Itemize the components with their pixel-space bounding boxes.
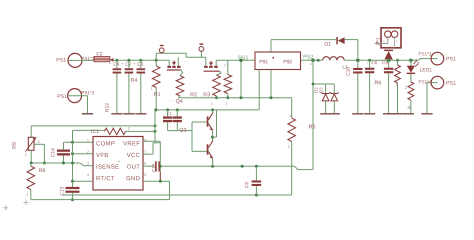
wire bus B xyxy=(31,199,170,201)
resistor R2 (gate) xyxy=(180,70,183,76)
wire driver tap xyxy=(211,136,214,139)
wire sense rail xyxy=(178,97,291,99)
wire transformer bottom pin xyxy=(258,70,260,110)
resistor R1 xyxy=(155,59,158,62)
connector PS1*1 xyxy=(68,53,82,67)
IC1 box xyxy=(93,137,143,191)
capacitor C9 xyxy=(382,61,388,64)
diode D3 (zener) xyxy=(319,88,322,93)
ground R6 xyxy=(391,113,402,114)
resistor feedback (COMP-VFB) xyxy=(91,129,98,133)
resistor R8 xyxy=(27,166,35,190)
wire testpoint line xyxy=(156,52,186,54)
connector PS1*4 xyxy=(419,80,432,83)
ground R7 xyxy=(403,113,414,114)
wire bus A xyxy=(62,194,292,196)
wire snubber top xyxy=(271,39,336,41)
capacitor C6 xyxy=(367,62,369,64)
capacitor C3 xyxy=(137,62,143,65)
label Q3 xyxy=(180,128,187,133)
wire drain bus xyxy=(216,59,255,61)
wire base feed xyxy=(168,130,192,132)
resistor R7 xyxy=(410,74,412,82)
ground PS1*4 xyxy=(421,113,432,114)
diode D2 (zener) xyxy=(315,88,318,93)
wire vertical feed xyxy=(72,130,74,181)
ground C3 xyxy=(135,113,146,114)
transistor Q2 (MOSFET) xyxy=(205,57,207,66)
wire VREF pin8 xyxy=(143,140,160,142)
wire gate net 2 xyxy=(186,56,206,58)
wire OUT pin6 xyxy=(143,165,155,167)
fuse F2 xyxy=(97,52,102,56)
LED1 xyxy=(409,59,413,63)
wire COMP pin1 xyxy=(64,141,94,143)
transformer PS1/PS2 box xyxy=(255,52,301,70)
potentiometer R9 xyxy=(30,126,32,137)
wire output bus xyxy=(344,59,418,61)
wire PS2 drop xyxy=(312,60,314,169)
label R4 xyxy=(131,78,137,82)
wire sense riser xyxy=(240,60,242,98)
wire VCC pin7 xyxy=(143,153,153,155)
testpoint pad 2 xyxy=(200,51,202,57)
wire bus A corner xyxy=(291,194,293,196)
capacitor C4 xyxy=(113,62,119,65)
origin cross xyxy=(23,200,28,205)
ground C6 xyxy=(364,113,375,114)
jumper JP1 xyxy=(376,38,379,46)
capacitor C2 xyxy=(125,62,131,65)
resistor (snubber) xyxy=(227,60,229,74)
transistor Q1 (MOSFET) xyxy=(168,60,170,66)
resistor R3 (gate 2) xyxy=(217,71,221,75)
fuse output arrow xyxy=(110,58,113,62)
capacitor C2b xyxy=(176,108,179,111)
diode D4 (under JP1) xyxy=(384,50,393,52)
wire PS1*4 ground xyxy=(426,83,428,114)
wire emitter to OUT line xyxy=(212,159,214,167)
inductor L1 xyxy=(323,57,345,61)
wire VCC riser xyxy=(154,110,156,143)
capacitor C14 xyxy=(51,148,54,156)
ground PS1*2 xyxy=(82,113,93,114)
wire drop xyxy=(185,53,187,57)
resistor R6 xyxy=(375,81,381,85)
ground C2 xyxy=(123,113,134,114)
label R12 (rotated) xyxy=(105,103,108,111)
connector PS1*3 xyxy=(419,52,431,55)
wire FB node xyxy=(31,162,81,164)
ground C9 xyxy=(383,113,394,114)
label Q4 xyxy=(172,99,174,101)
transistor Q3 upper (NPN) xyxy=(211,108,214,111)
capacitor C5 xyxy=(245,182,248,188)
wire vcc rail xyxy=(155,109,259,111)
resistor R5 xyxy=(291,98,293,118)
primary bus wire xyxy=(114,59,170,61)
wire GND pin5 xyxy=(143,180,170,182)
wire R9 wiper xyxy=(34,143,44,145)
origin cross 2 xyxy=(3,205,8,210)
ground zeners xyxy=(320,113,340,114)
connector PS1*2 xyxy=(68,89,82,103)
wire VREF drop xyxy=(159,141,161,172)
testpoint pad 1 xyxy=(161,52,163,54)
capacitor C13 xyxy=(60,187,63,195)
transistor Q4 lower (NPN) xyxy=(212,130,214,141)
wire zener branch xyxy=(313,83,334,85)
wire RT/CT pin4 xyxy=(73,180,94,182)
wire COMP feedback top xyxy=(31,125,155,127)
wire snubber vertical xyxy=(270,40,272,98)
node PS1 xyxy=(239,59,243,63)
wire D1 drop xyxy=(357,40,359,61)
wire riser to testpoint line xyxy=(155,53,157,60)
wire OUT line xyxy=(160,165,294,167)
wire secondary out xyxy=(301,59,323,61)
capacitor C1 xyxy=(163,113,165,115)
ground C4 xyxy=(111,113,122,114)
wire GND drop xyxy=(169,181,171,200)
capacitor C15 xyxy=(152,164,155,172)
capacitor C10 xyxy=(346,67,349,75)
diode D1 xyxy=(325,42,331,46)
ground C10 xyxy=(352,113,363,114)
wire VFB pin2 xyxy=(73,153,94,155)
